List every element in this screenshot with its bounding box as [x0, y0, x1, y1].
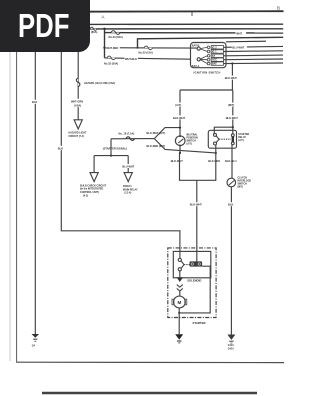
WHT-GRN label: [71, 99, 87, 107]
bus line L4: [138, 37, 284, 47]
bulb check drop: [93, 156, 95, 173]
split diagonals: [154, 128, 216, 153]
motor brush left: [172, 299, 174, 305]
svg-text:No.33 (50A): No.33 (50A): [109, 35, 123, 39]
net label BLK-WHT: [225, 76, 240, 80]
svg-text:NEUTRAL: NEUTRAL: [187, 134, 199, 137]
wire coil to motor: [179, 271, 181, 277]
page scan left edge: [9, 52, 11, 361]
ground G101 right: [227, 335, 235, 340]
svg-text:BLK-RED: BLK-RED: [208, 159, 220, 163]
svg-text:IG 1: IG 1: [212, 51, 217, 54]
svg-text:BLK-RED (M/T): BLK-RED (M/T): [147, 144, 166, 148]
diagram bottom border: [16, 361, 284, 363]
fuse No.18 wire: [111, 138, 154, 140]
next page top line: [42, 392, 257, 394]
svg-text:BLK-WHT (A/T): BLK-WHT (A/T): [147, 131, 166, 135]
svg-text:BLU-WHT: BLU-WHT: [232, 45, 245, 49]
wire A/T branch: [179, 90, 181, 136]
diagram left border: [16, 52, 18, 362]
PDF badge: [0, 0, 90, 52]
svg-text:BLK: BLK: [228, 203, 233, 207]
svg-text:(A/T): (A/T): [238, 139, 244, 142]
connector arrow solenoid out: [177, 277, 183, 282]
svg-text:(A/T): (A/T): [175, 103, 181, 107]
ground G1 starter: [175, 334, 183, 339]
merge bracket: [180, 153, 216, 180]
svg-text:BAT: BAT: [212, 63, 217, 66]
svg-text:BLK-BLU: BLK-BLU: [225, 159, 237, 163]
wire feed riser: [104, 29, 106, 58]
svg-text:SOLENOID: SOLENOID: [187, 279, 201, 283]
neutral position switch S1: [175, 136, 185, 146]
ignition output O3: [224, 54, 284, 57]
variant label (A/T): [175, 103, 186, 107]
wire relay contact out BLK-BLU: [231, 145, 233, 179]
svg-text:HAZARD (10A) FUSE (USA): HAZARD (10A) FUSE (USA): [84, 82, 115, 85]
svg-text:G4: G4: [32, 344, 36, 347]
ground G4 left wire: [32, 334, 40, 338]
svg-text:STARTER: STARTER: [238, 133, 249, 136]
diagram top border: [20, 10, 284, 13]
svg-text:SWITCH: SWITCH: [187, 140, 197, 142]
svg-text:BAT-A: BAT-A: [192, 65, 200, 68]
ignition output O1 BLU-WHT: [224, 45, 284, 48]
svg-text:POSITION: POSITION: [187, 138, 198, 140]
pin S1 bottom terminal: [179, 145, 181, 147]
svg-text:BLK-WHT: BLK-WHT: [190, 203, 203, 207]
starter dash-dot box: [168, 248, 216, 318]
bus line L2: [90, 28, 284, 30]
svg-text:No. 18 (7.5A): No. 18 (7.5A): [119, 132, 135, 136]
svg-text:ACC: ACC: [212, 59, 217, 62]
wire pgm-fi drop: [127, 156, 129, 173]
fuse F1 on L2: [90, 27, 97, 30]
svg-text:(USA): (USA): [74, 104, 81, 107]
svg-text:STARTER: STARTER: [193, 321, 206, 325]
wire BLK to ground: [230, 187, 232, 335]
grid tick 1: [191, 12, 193, 16]
wire relay contact feed: [232, 127, 234, 134]
svg-text:BLK-WHT: BLK-WHT: [171, 159, 184, 163]
net label BLK-WHT A/T: [173, 115, 188, 119]
wire WHT-BLK input: [105, 58, 191, 59]
svg-text:WHT-BLK: WHT-BLK: [125, 57, 137, 61]
arrow to hazard circuit: [74, 120, 82, 129]
junction on L2: [103, 28, 105, 30]
svg-text:(12-A): (12-A): [125, 192, 132, 195]
hazard fuse: [76, 78, 80, 87]
svg-text:(M/T): (M/T): [228, 103, 234, 107]
net label BLK: [32, 100, 40, 104]
ignition right terminals and label boxes: [207, 46, 223, 66]
wire relay coil return drop: [215, 145, 217, 153]
ignition wipers: [200, 47, 207, 63]
svg-text:IGNITION SWITCH: IGNITION SWITCH: [194, 71, 221, 75]
starter signal riser: [110, 139, 112, 156]
hazard fuse wire: [77, 52, 79, 120]
motor brush right: [185, 299, 187, 305]
pin S1 top terminal: [179, 135, 181, 137]
wire BLK-WHT ST drop: [231, 64, 233, 91]
net label BLK harness: [57, 146, 65, 150]
fuse No.33: [111, 31, 120, 35]
fuse No.25: [144, 46, 153, 50]
svg-text:INTERLOCK: INTERLOCK: [238, 181, 252, 183]
svg-text:BLK: BLK: [32, 100, 37, 104]
svg-text:CLUTCH: CLUTCH: [238, 178, 248, 180]
net label BLK-WHT solenoid: [190, 202, 205, 206]
svg-text:(A/T): (A/T): [187, 142, 193, 145]
svg-text:No.25 (15A): No.25 (15A): [139, 51, 153, 55]
svg-text:B: B: [277, 6, 280, 11]
svg-text:WHT-GRN: WHT-GRN: [71, 100, 83, 103]
svg-text:WHT: WHT: [236, 32, 242, 36]
solenoid box: [173, 251, 211, 277]
solenoid contact blob: [190, 261, 203, 266]
starter motor M: [174, 296, 186, 308]
clutch interlock switch S2: [227, 178, 236, 187]
svg-text:0 (80A): 0 (80A): [89, 30, 98, 34]
svg-text:BLU-WHT: BLU-WHT: [122, 164, 135, 168]
svg-text:No.32 (50A): No.32 (50A): [104, 61, 118, 65]
svg-text:BLK-WHT: BLK-WHT: [225, 76, 238, 80]
ignition output O4: [224, 58, 284, 61]
svg-text:CIRCUIT (7-4): CIRCUIT (7-4): [69, 135, 85, 138]
junction L4 tap: [137, 47, 139, 49]
starter signal branch bus: [94, 155, 128, 157]
wire below neutral switch: [179, 146, 181, 154]
junction node merge right: [215, 152, 217, 154]
ignition left terminals: [197, 47, 200, 50]
svg-text:BLK-WHT: BLK-WHT: [173, 116, 186, 120]
arrow to pgm-fi: [124, 173, 132, 182]
motor to ground wire: [178, 308, 180, 334]
svg-text:BLK-WHT: BLK-WHT: [226, 116, 239, 120]
svg-text:RELAY: RELAY: [238, 136, 246, 139]
ignition output O5 ST line: [224, 62, 284, 65]
svg-text:(4-2): (4-2): [83, 194, 88, 197]
svg-text:M: M: [178, 300, 182, 305]
svg-text:ST: ST: [212, 55, 216, 58]
junction relay feed: [232, 126, 234, 128]
wire BLK left: [34, 52, 36, 334]
wire WHT-RED input: [105, 47, 198, 49]
svg-text:IG 2: IG 2: [212, 46, 217, 49]
wire contact return: [179, 266, 210, 313]
svg-text:A: A: [102, 14, 105, 19]
solenoid coil terminals: [178, 258, 181, 261]
svg-text:(M/T): (M/T): [238, 186, 244, 188]
wire relay coil feed jog: [214, 127, 233, 133]
svg-text:G401: G401: [228, 347, 235, 350]
harness wire via box route: [61, 52, 180, 258]
bus line L1 WHT main: [90, 23, 284, 25]
arrow to bulb check: [90, 173, 98, 182]
svg-text:WHT-RED: WHT-RED: [106, 46, 118, 50]
ignition output O2: [224, 50, 284, 53]
wire chevrons to motor: [179, 291, 181, 296]
fuse No.32: [107, 56, 116, 60]
junction WHT-RED: [103, 47, 105, 49]
wire M/T branch: [232, 90, 234, 127]
svg-text:(STARTER SIGNAL): (STARTER SIGNAL): [103, 147, 127, 151]
connector chevrons: [177, 285, 183, 291]
net label BLU-WHT to PGM-FI: [122, 164, 136, 168]
junction node merge left: [179, 152, 181, 154]
bus line L3 WHT: [105, 32, 284, 34]
starter relay K1: [208, 130, 236, 148]
svg-text:SWITCH: SWITCH: [238, 183, 248, 185]
junction motor node: [178, 312, 180, 314]
svg-text:BLK: BLK: [58, 146, 63, 150]
bus line L5: [226, 40, 266, 43]
net label BLK right: [228, 202, 236, 206]
wire tee: [180, 89, 232, 91]
wire solenoid feed: [196, 180, 198, 261]
variant label (M/T): [228, 103, 239, 107]
net label BLK-WHT M/T: [226, 115, 241, 119]
ignition switch U1 box: [191, 43, 227, 68]
